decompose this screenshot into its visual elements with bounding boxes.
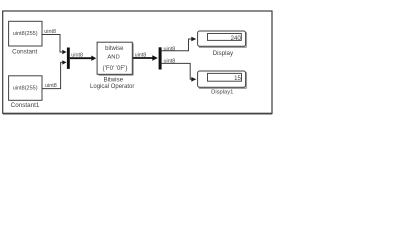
svg-text:240: 240 bbox=[231, 36, 242, 42]
svg-text:AND: AND bbox=[107, 55, 119, 61]
svg-text:uint8: uint8 bbox=[135, 53, 147, 59]
svg-text:Constant1: Constant1 bbox=[11, 102, 40, 109]
svg-text:uint8: uint8 bbox=[44, 29, 56, 35]
subsystem frame bbox=[3, 11, 273, 114]
label Bitwise Logical Operator bbox=[90, 77, 134, 90]
svg-text:uint8: uint8 bbox=[164, 46, 176, 52]
mux bar bbox=[67, 48, 70, 69]
constant block Constant1 bbox=[9, 76, 42, 101]
demux bar bbox=[159, 47, 162, 69]
wire Constant to mux input 1 bbox=[42, 29, 67, 54]
svg-text:Logical Operator: Logical Operator bbox=[90, 84, 134, 90]
svg-text:Display1: Display1 bbox=[211, 90, 233, 96]
block Bitwise Logical Operator bbox=[97, 42, 133, 75]
svg-text:{'F0' '0F'}: {'F0' '0F'} bbox=[103, 65, 128, 72]
svg-text:bitwise: bitwise bbox=[105, 46, 124, 52]
svg-text:uint8: uint8 bbox=[45, 83, 57, 89]
vector wire mux to Bitwise Logical Operator bbox=[70, 53, 96, 61]
wire Constant1 to mux input 2 bbox=[42, 60, 67, 89]
svg-text:uint8(255): uint8(255) bbox=[13, 31, 38, 37]
svg-text:Constant: Constant bbox=[12, 49, 37, 56]
vector wire Bitwise Logical Operator to demux bbox=[133, 53, 158, 61]
display block Display bbox=[198, 31, 247, 47]
svg-text:uint8: uint8 bbox=[164, 59, 176, 65]
display block Display1 bbox=[198, 71, 247, 88]
constant block Constant bbox=[9, 21, 42, 46]
wire demux output 2 to Display1 bbox=[162, 59, 197, 82]
svg-text:15: 15 bbox=[234, 76, 241, 82]
wire demux output 1 to Display bbox=[162, 37, 197, 53]
svg-text:uint8(255): uint8(255) bbox=[13, 86, 38, 92]
svg-text:uint8: uint8 bbox=[71, 53, 83, 59]
svg-text:Display: Display bbox=[213, 50, 234, 57]
svg-text:Bitwise: Bitwise bbox=[103, 77, 123, 84]
